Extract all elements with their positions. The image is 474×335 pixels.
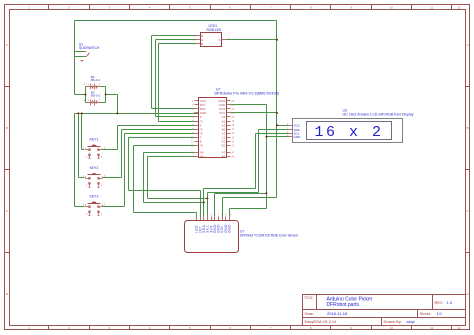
svg-text:11: 11 bbox=[430, 326, 433, 330]
svg-text:17: 17 bbox=[232, 128, 235, 131]
svg-text:D: D bbox=[6, 292, 8, 296]
svg-text:A6: A6 bbox=[222, 155, 226, 159]
svg-text:11: 11 bbox=[191, 140, 194, 143]
svg-text:EasyEDA V5.3.14: EasyEDA V5.3.14 bbox=[305, 319, 338, 324]
svg-text:20: 20 bbox=[232, 116, 235, 119]
svg-text:8: 8 bbox=[221, 214, 223, 217]
svg-text:TITLE:: TITLE: bbox=[304, 296, 314, 300]
svg-text:2: 2 bbox=[86, 156, 88, 159]
svg-text:2: 2 bbox=[192, 104, 194, 107]
svg-text:19: 19 bbox=[232, 120, 235, 123]
svg-text:2: 2 bbox=[99, 83, 101, 86]
svg-text:GND: GND bbox=[294, 135, 302, 139]
svg-text:GND: GND bbox=[228, 224, 232, 233]
svg-text:*10: *10 bbox=[221, 144, 226, 148]
svg-text:1: 1 bbox=[83, 175, 85, 178]
svg-text:1: 1 bbox=[84, 83, 86, 86]
svg-text:BS-0-1: BS-0-1 bbox=[91, 78, 101, 82]
svg-text:KEY1: KEY1 bbox=[90, 137, 99, 141]
svg-text:2018-11-18: 2018-11-18 bbox=[327, 311, 348, 316]
svg-text:+: + bbox=[87, 82, 89, 86]
svg-text:+: + bbox=[87, 53, 89, 57]
svg-text:12: 12 bbox=[457, 5, 461, 9]
svg-text:Sheet:: Sheet: bbox=[420, 311, 432, 316]
svg-text:6: 6 bbox=[214, 214, 216, 217]
svg-text:3: 3 bbox=[109, 5, 111, 9]
svg-text:I2C 16x2 Arduino LCD with RGB: I2C 16x2 Arduino LCD with RGB Font Displ… bbox=[343, 112, 414, 116]
svg-text:A4: A4 bbox=[200, 155, 204, 159]
svg-text:1/1: 1/1 bbox=[437, 311, 443, 316]
svg-text:A7: A7 bbox=[232, 152, 236, 155]
svg-text:16: 16 bbox=[232, 132, 235, 135]
svg-text:1: 1 bbox=[287, 127, 289, 130]
svg-text:4: 4 bbox=[101, 185, 103, 188]
svg-text:4: 4 bbox=[101, 213, 103, 216]
svg-text:Drawn By:: Drawn By: bbox=[384, 319, 402, 324]
svg-text:A: A bbox=[6, 43, 8, 47]
svg-text:24: 24 bbox=[232, 100, 235, 103]
svg-text:4: 4 bbox=[207, 214, 209, 217]
svg-text:2: 2 bbox=[68, 5, 70, 9]
svg-text:10: 10 bbox=[390, 5, 394, 9]
svg-text:3: 3 bbox=[203, 214, 205, 217]
svg-text:5: 5 bbox=[189, 5, 191, 9]
svg-text:1: 1 bbox=[83, 204, 85, 207]
svg-text:4: 4 bbox=[149, 5, 151, 9]
svg-text:1.0: 1.0 bbox=[447, 300, 453, 305]
svg-text:D: D bbox=[466, 292, 468, 296]
svg-text:*9: *9 bbox=[200, 144, 203, 148]
svg-text:9: 9 bbox=[225, 214, 227, 217]
svg-text:BS-0-1: BS-0-1 bbox=[91, 94, 101, 98]
svg-text:15: 15 bbox=[232, 136, 235, 139]
svg-text:A6: A6 bbox=[232, 156, 236, 159]
svg-text:1: 1 bbox=[28, 5, 30, 9]
svg-text:Date:: Date: bbox=[305, 311, 315, 316]
svg-text:14: 14 bbox=[232, 140, 235, 143]
svg-text:A: A bbox=[467, 43, 469, 47]
svg-text:VCC: VCC bbox=[294, 123, 301, 127]
svg-text:B: B bbox=[6, 126, 8, 130]
svg-text:REV:: REV: bbox=[435, 300, 444, 305]
svg-text:KEY2: KEY2 bbox=[90, 166, 99, 170]
svg-text:B: B bbox=[201, 42, 203, 46]
svg-text:8: 8 bbox=[310, 5, 312, 9]
svg-text:DFRobot TCS34725 RGB Color Sen: DFRobot TCS34725 RGB Color Sensor bbox=[240, 234, 299, 238]
svg-text:10: 10 bbox=[229, 214, 232, 217]
svg-text:9: 9 bbox=[350, 5, 352, 9]
svg-text:18: 18 bbox=[232, 124, 235, 127]
svg-text:C: C bbox=[466, 209, 468, 213]
svg-text:B: B bbox=[467, 126, 469, 130]
svg-text:7: 7 bbox=[270, 5, 272, 9]
svg-text:alojz: alojz bbox=[407, 319, 415, 324]
svg-text:2: 2 bbox=[99, 99, 101, 102]
svg-text:4: 4 bbox=[101, 156, 103, 159]
svg-text:1: 1 bbox=[192, 100, 194, 103]
svg-text:RGB LED: RGB LED bbox=[207, 28, 222, 32]
svg-text:2: 2 bbox=[200, 214, 202, 217]
svg-text:13: 13 bbox=[232, 144, 235, 147]
svg-text:12: 12 bbox=[457, 326, 461, 330]
svg-text:22: 22 bbox=[232, 108, 235, 111]
svg-text:C: C bbox=[6, 209, 8, 213]
svg-text:16 x 2: 16 x 2 bbox=[314, 124, 383, 141]
svg-text:10: 10 bbox=[390, 326, 394, 330]
svg-text:DFRduino Pro Mini V1.3(8M0.5V3: DFRduino Pro Mini V1.3(8M0.5V328) bbox=[215, 90, 280, 95]
svg-text:A: A bbox=[219, 38, 221, 42]
svg-text:+: + bbox=[81, 59, 83, 63]
svg-text:SLIDSWITCH: SLIDSWITCH bbox=[79, 46, 100, 50]
svg-text:2: 2 bbox=[86, 213, 88, 216]
svg-text:5: 5 bbox=[211, 214, 213, 217]
svg-text:1: 1 bbox=[196, 214, 198, 217]
svg-text:+: + bbox=[87, 98, 89, 102]
svg-text:6: 6 bbox=[229, 5, 231, 9]
svg-text:7: 7 bbox=[218, 214, 220, 217]
svg-text:1: 1 bbox=[83, 147, 85, 150]
svg-text:11: 11 bbox=[430, 5, 433, 9]
svg-text:2: 2 bbox=[86, 185, 88, 188]
svg-text:KEY3: KEY3 bbox=[90, 194, 99, 198]
svg-text:DFRobot parts: DFRobot parts bbox=[327, 302, 360, 308]
